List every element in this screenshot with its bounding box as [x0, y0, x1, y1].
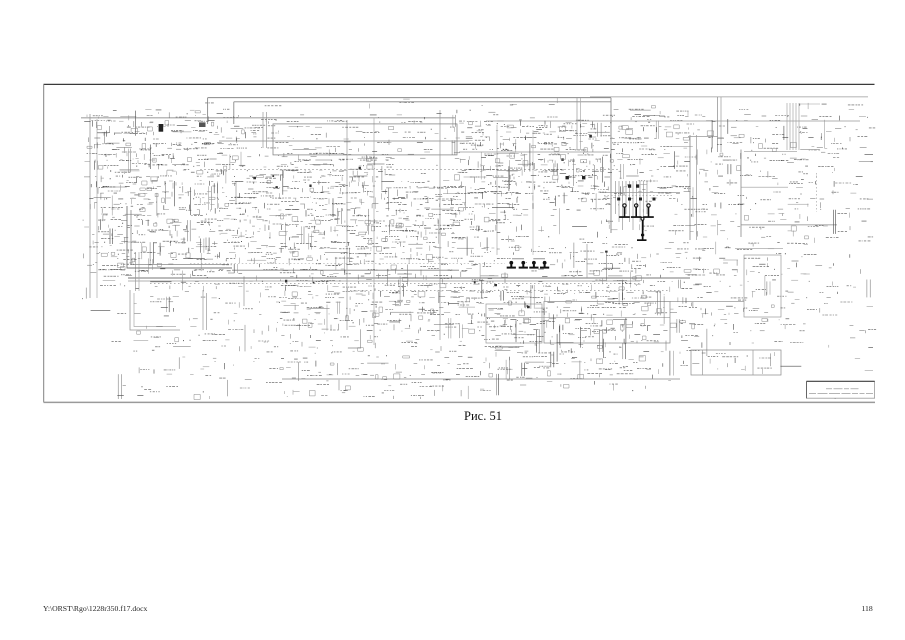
wire: [81, 117, 455, 119]
wire: [688, 136, 718, 138]
nested bus loop lower-left inner: [134, 293, 176, 327]
wire: [282, 378, 680, 380]
wire: [741, 186, 788, 188]
wire: [720, 97, 722, 152]
wire: [600, 192, 680, 194]
component block outline C (right tall): [744, 255, 781, 317]
dense wiring texture (dark gray): [84, 104, 873, 399]
two dark contact blobs: [628, 184, 639, 187]
schematic frame left border: [43, 84, 45, 402]
wire: [200, 169, 620, 171]
wire: [150, 283, 640, 285]
wire: [798, 103, 800, 150]
wire: [740, 150, 742, 238]
tiny unreadable component labels: [82, 102, 876, 397]
wire: [234, 101, 611, 103]
wire: [670, 301, 744, 303]
wire: [89, 114, 91, 298]
schematic frame bottom border: [44, 401, 876, 403]
dark contact square pair left of bundle: [566, 176, 586, 179]
wire: [792, 103, 794, 150]
wire: [266, 112, 268, 148]
wire: [590, 96, 868, 98]
wire: [741, 224, 837, 226]
nested bus loop left block outer: [127, 206, 232, 268]
connector terminal at x=636.2: [631, 204, 642, 218]
wire: [128, 280, 640, 282]
row of contact squares: [617, 198, 655, 201]
relay contact glyph at x=511.3: [507, 261, 516, 269]
wire above relay glyph pair 1: [512, 258, 524, 260]
wire: [350, 290, 670, 292]
wire: [219, 140, 469, 142]
wire: [96, 119, 98, 298]
wire above relay glyph pair 2: [533, 258, 545, 260]
wire: [208, 97, 611, 99]
relay contact glyph at x=533.9: [529, 261, 538, 269]
title block text line 1: [826, 388, 859, 391]
wire: [789, 103, 791, 150]
scattered dark component blobs: [253, 135, 607, 308]
figure caption: [464, 409, 502, 424]
title block text line 2: [809, 392, 873, 395]
component block outline A (lower center): [544, 302, 670, 344]
wire: [135, 252, 137, 291]
wire: [610, 98, 612, 233]
vertical wire pair lower-left: [203, 290, 207, 330]
wire: [232, 269, 459, 271]
wire: [795, 103, 797, 150]
wire: [207, 98, 209, 124]
wire: [735, 248, 783, 250]
connector terminal extension (middle stem down): [637, 217, 647, 241]
connector terminal at x=648.5: [643, 204, 654, 218]
wire: [786, 103, 788, 150]
wire: [696, 135, 698, 240]
wire: [604, 195, 672, 197]
wire: [504, 273, 506, 284]
wire: [689, 135, 691, 240]
wire: [717, 97, 719, 152]
schematic frame top border: [44, 83, 875, 85]
wire: [128, 277, 690, 279]
wire bundle above connector cluster: [616, 181, 648, 230]
component block row (lower right boxes): [691, 350, 781, 375]
wire: [138, 252, 140, 291]
wire: [532, 130, 534, 255]
wire: [190, 262, 505, 264]
wire: [439, 110, 441, 340]
wire: [496, 125, 498, 255]
wire: [233, 102, 235, 124]
nested bus loop left block inner: [131, 210, 229, 265]
small component body outlines: [87, 106, 809, 400]
dense wiring texture (mid gray): [83, 110, 873, 400]
nested bus loop lower-left outer: [130, 290, 180, 330]
wire: [576, 98, 578, 150]
dark component blob 1: [159, 124, 164, 132]
component block outline (central): [273, 124, 457, 155]
wire: [346, 120, 348, 330]
wire: [580, 98, 582, 150]
wire: [799, 103, 820, 105]
wire: [262, 112, 264, 148]
relay contact glyph at x=523.3: [519, 261, 528, 269]
title block box: [807, 381, 875, 398]
wire: [486, 317, 670, 319]
wire: [586, 244, 588, 278]
dark component blob 2: [199, 122, 206, 127]
wire: [486, 120, 860, 122]
wire: [744, 151, 797, 153]
wire: [816, 173, 818, 212]
footer file path: [43, 604, 147, 613]
page number: [862, 604, 873, 613]
connector terminal at x=624.5: [619, 204, 630, 218]
wire: [373, 118, 375, 345]
dense wiring texture (light gray): [84, 98, 873, 399]
wire: [459, 151, 610, 153]
relay contact glyph at x=544.6: [540, 261, 549, 269]
component block outline B (lower center-left): [486, 304, 542, 343]
